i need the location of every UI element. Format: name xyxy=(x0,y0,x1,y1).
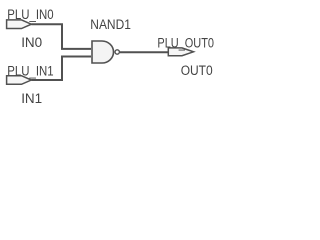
svg-text:PLU_OUT0: PLU_OUT0 xyxy=(157,35,214,51)
svg-text:OUT0: OUT0 xyxy=(181,63,213,79)
svg-text:NAND1: NAND1 xyxy=(90,17,131,33)
svg-text:IN1: IN1 xyxy=(21,91,42,107)
svg-text:IN0: IN0 xyxy=(21,35,42,51)
svg-text:PLU_IN0: PLU_IN0 xyxy=(7,7,53,23)
svg-text:PLU_IN1: PLU_IN1 xyxy=(7,63,53,79)
